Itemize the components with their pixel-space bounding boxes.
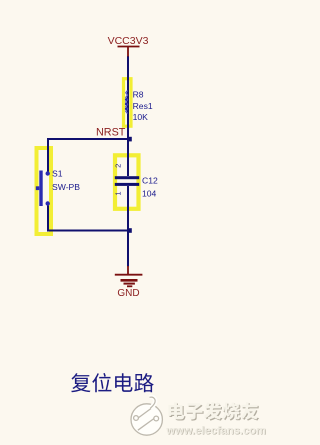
svg-text:S1: S1 (52, 169, 63, 179)
svg-text:C12: C12 (142, 176, 158, 186)
svg-text:SW-PB: SW-PB (52, 182, 80, 192)
svg-text:www.elecfans.com: www.elecfans.com (165, 425, 266, 437)
svg-text:2: 2 (114, 164, 123, 168)
svg-text:10K: 10K (133, 112, 149, 122)
svg-text:1: 1 (114, 191, 123, 195)
svg-text:VCC3V3: VCC3V3 (108, 35, 149, 47)
svg-text:Res1: Res1 (133, 101, 153, 111)
svg-text:GND: GND (117, 288, 139, 299)
svg-text:R8: R8 (133, 90, 144, 100)
svg-text:104: 104 (142, 189, 157, 199)
svg-text:NRST: NRST (96, 127, 126, 139)
